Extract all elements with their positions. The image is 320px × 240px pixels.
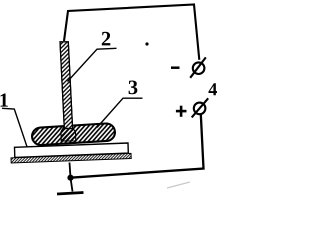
label 1 with leader bbox=[1, 93, 8, 106]
plate 1 (lower electrode plate) bbox=[15, 143, 129, 157]
ink speck bbox=[145, 42, 148, 45]
label 4 bbox=[208, 83, 217, 95]
faint scan streak bbox=[167, 182, 190, 188]
minus sign bbox=[171, 66, 180, 69]
plate hatch band bbox=[11, 153, 131, 163]
wire ground drop bbox=[70, 163, 73, 192]
terminal minus (circle with slash) bbox=[190, 57, 206, 77]
wire top: rod top to upper-right corner bbox=[64, 5, 199, 60]
plus sign bbox=[176, 106, 187, 117]
label 3 with leader bbox=[129, 81, 138, 95]
label 2 with leader bbox=[102, 32, 111, 46]
terminal plus (circle with slash) bbox=[192, 98, 209, 117]
rod foot (flange inside pill) bbox=[61, 128, 76, 142]
junction node bbox=[67, 175, 73, 181]
rod 2 (upper electrode rod) bbox=[60, 42, 73, 129]
ground bbox=[57, 193, 84, 195]
dielectric pill 3 (hatched rounded block) bbox=[32, 123, 116, 146]
wire right: plus terminal down to bottom-right corner then left to junction bbox=[71, 114, 204, 178]
